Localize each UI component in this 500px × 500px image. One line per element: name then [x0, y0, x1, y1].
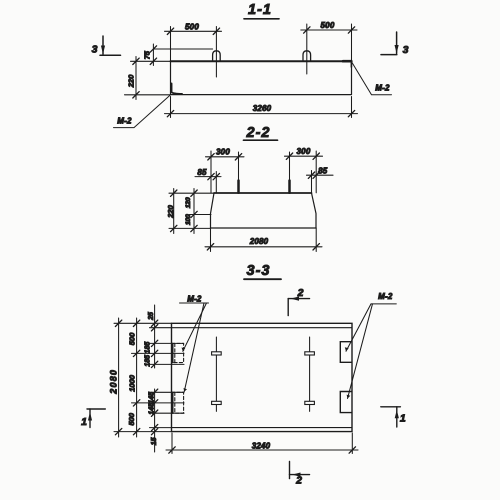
- lifting loops pair left (plan): [212, 337, 222, 411]
- slab body section 1-1: [171, 61, 352, 94]
- section title 3-3: [244, 263, 281, 279]
- svg-text:500: 500: [321, 21, 335, 30]
- svg-text:100: 100: [185, 214, 192, 225]
- svg-text:2080: 2080: [109, 369, 119, 395]
- svg-text:1-1: 1-1: [248, 2, 272, 18]
- dimensions 120 and 100 (2-2): [185, 189, 197, 234]
- svg-text:M-2: M-2: [378, 292, 393, 301]
- dimension 500 right (1-1): [301, 21, 357, 61]
- svg-text:M-2: M-2: [187, 294, 202, 303]
- section marker 2 bottom (plan): [290, 462, 310, 487]
- dimension chain 25/185/185 and 145/145/15 (plan): [144, 305, 157, 452]
- svg-text:2: 2: [295, 475, 302, 487]
- embed plate M-2 top-right (plan): [340, 342, 352, 363]
- svg-text:500: 500: [127, 332, 136, 345]
- svg-text:500: 500: [185, 22, 199, 31]
- dimension 220 (2-2): [166, 189, 177, 234]
- dimension 300 right (2-2): [285, 147, 323, 193]
- svg-text:85: 85: [197, 168, 207, 177]
- svg-text:500: 500: [127, 412, 136, 425]
- lifting loops pair right (plan): [305, 337, 315, 411]
- lifting loop P1 side view (2-2): [237, 152, 240, 193]
- dimension 3260 (1-1): [165, 97, 358, 118]
- svg-text:220: 220: [166, 204, 175, 218]
- embed plate M-2 at top-right corner (1-1): [343, 61, 351, 67]
- svg-text:2-2: 2-2: [246, 125, 271, 141]
- slab cross-section body (2-2): [211, 193, 317, 228]
- section marker 1 left (plan): [81, 409, 105, 428]
- svg-text:120: 120: [185, 197, 192, 208]
- embed plate M-2 bottom-left (plan, dashed): [172, 392, 184, 413]
- dimension 2080 (2-2): [205, 228, 322, 252]
- svg-text:3: 3: [403, 44, 409, 56]
- label M-2 right (plan) with leaders: [345, 292, 397, 399]
- extension lines left side (2-2): [169, 193, 214, 228]
- dimension 85 left (2-2): [195, 168, 221, 193]
- svg-text:300: 300: [297, 147, 311, 156]
- section marker 2 top (plan): [288, 287, 309, 315]
- dimension chain 500/1000/500 (plan): [127, 318, 140, 437]
- dimension 220 (1-1): [125, 57, 171, 100]
- svg-text:25: 25: [148, 312, 155, 321]
- lifting loop P1 elevation: [213, 27, 221, 78]
- svg-text:1: 1: [81, 416, 87, 428]
- section title 1-1: [244, 2, 279, 19]
- svg-text:3260: 3260: [253, 104, 272, 113]
- svg-text:3240: 3240: [252, 442, 271, 451]
- section title 2-2: [244, 125, 278, 141]
- dimension 85 right (2-2): [307, 167, 334, 193]
- svg-text:15: 15: [151, 437, 158, 445]
- dimension 3240 (plan): [166, 433, 358, 454]
- svg-text:220: 220: [126, 74, 135, 88]
- section marker 1 right (plan): [381, 407, 406, 427]
- svg-text:75: 75: [142, 50, 151, 59]
- embed plate M-2 bottom-right (plan): [340, 392, 352, 413]
- svg-text:300: 300: [216, 147, 230, 156]
- svg-text:M-2: M-2: [117, 117, 132, 126]
- slab plan outline (3-3): [172, 323, 353, 431]
- leader and label M-2 right (1-1): [352, 63, 392, 95]
- svg-text:1: 1: [400, 413, 406, 425]
- lifting loop P2 elevation: [303, 24, 311, 74]
- dimension 2080 overall width (plan): [109, 318, 122, 437]
- section marker 3 right (1-1): [381, 32, 409, 56]
- svg-text:85: 85: [318, 167, 328, 176]
- svg-text:3-3: 3-3: [247, 263, 271, 279]
- svg-text:M-2: M-2: [375, 84, 390, 93]
- svg-text:145: 145: [149, 392, 156, 404]
- svg-text:2: 2: [297, 287, 304, 299]
- label M-2 left (plan) with leaders: [180, 294, 209, 392]
- extension lines left of plan: [114, 323, 184, 431]
- svg-text:3: 3: [92, 44, 98, 56]
- section marker 3 left (1-1): [92, 36, 121, 56]
- embed plate M-2 at bottom-left corner (1-1): [172, 84, 183, 95]
- dimension 500 left (1-1): [165, 22, 222, 61]
- dimension 75 (1-1): [142, 44, 212, 66]
- lifting loop P2 side view (2-2): [288, 152, 291, 193]
- svg-text:2080: 2080: [249, 237, 269, 246]
- svg-text:1000: 1000: [128, 374, 137, 392]
- embed plate M-2 top-left (plan, dashed): [172, 343, 184, 362]
- leader and label M-2 left (1-1): [114, 95, 171, 127]
- dimension 300 left (2-2): [206, 147, 245, 192]
